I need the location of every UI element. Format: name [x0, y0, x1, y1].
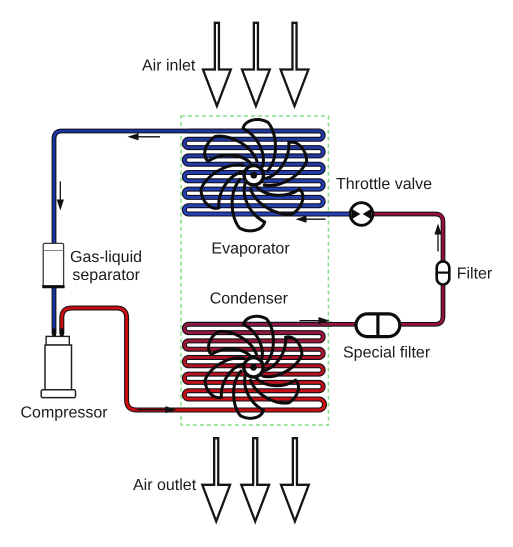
svg-text:Throttle valve: Throttle valve [336, 176, 432, 193]
svg-text:Air outlet: Air outlet [133, 477, 197, 494]
svg-text:separator: separator [72, 267, 140, 284]
svg-text:Condenser: Condenser [210, 291, 289, 308]
svg-text:Filter: Filter [457, 266, 493, 283]
svg-text:Evaporator: Evaporator [211, 241, 290, 258]
svg-text:Compressor: Compressor [21, 405, 109, 422]
svg-text:Special filter: Special filter [343, 345, 431, 362]
svg-text:Gas-liquid: Gas-liquid [70, 249, 142, 266]
svg-text:Air inlet: Air inlet [142, 58, 196, 75]
